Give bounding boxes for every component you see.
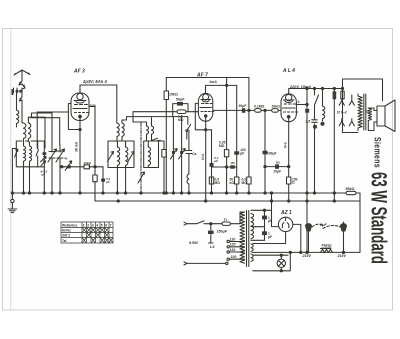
svg-text:t2 t∼2: t2 t∼2 — [337, 111, 347, 115]
IFT1 coil a — [117, 147, 119, 168]
transformer primary — [240, 212, 245, 263]
svg-text:U≈4: U≈4 — [201, 154, 205, 160]
wire antenna to coil — [17, 93, 23, 123]
antenna coil secondary — [28, 117, 30, 142]
AVC line left — [31, 112, 69, 148]
B+ top line — [166, 77, 249, 79]
svg-text:kΩ: kΩ — [230, 181, 235, 185]
svg-text:AF 7: AF 7 — [196, 73, 208, 79]
output transformer primary — [358, 96, 362, 128]
plate feed line — [80, 84, 117, 86]
pickup jack — [187, 174, 189, 193]
hf choke — [323, 89, 325, 122]
svg-text:AF 3: AF 3 — [73, 69, 85, 75]
power transformer core — [247, 211, 249, 267]
OT secondary — [368, 108, 371, 121]
IF coil 2 box — [144, 141, 159, 168]
coil L3 — [30, 146, 32, 167]
variable cap C1 — [48, 113, 57, 193]
wave switch — [152, 138, 161, 140]
coupling cap 30uF — [214, 109, 255, 111]
lamp feed wires — [253, 252, 291, 270]
svg-text:pF: pF — [42, 173, 46, 177]
heater link — [271, 193, 273, 201]
svg-text:3: 3 — [92, 223, 94, 227]
tube AF3 — [71, 93, 89, 121]
spark gap — [19, 81, 25, 97]
grid stopper row — [62, 166, 103, 168]
svg-text:132: 132 — [230, 248, 236, 252]
ground bus wire — [12, 192, 360, 194]
tube AL4 — [281, 94, 296, 122]
svg-text:15kΩ: 15kΩ — [169, 93, 178, 97]
svg-text:Ω: Ω — [292, 181, 295, 185]
svg-text:5: 5 — [101, 223, 103, 227]
fuse box filled — [333, 91, 337, 99]
svg-text:2μ3V; 5An 4: 2μ3V; 5An 4 — [82, 79, 107, 84]
svg-text:M.Fkz: M.Fkz — [62, 228, 71, 232]
mains plug marks — [184, 222, 187, 265]
coil L2 — [24, 146, 26, 167]
svg-text:63 W Standard: 63 W Standard — [367, 172, 392, 264]
svg-text:100μF: 100μF — [267, 151, 277, 155]
svg-text:215V: 215V — [337, 254, 347, 258]
cap blob right — [43, 152, 47, 155]
svg-text:Wellenber.: Wellenber. — [62, 223, 78, 227]
resistor 0.1M — [255, 109, 262, 113]
svg-text:95kΩ: 95kΩ — [346, 187, 355, 191]
speaker wiring — [358, 79, 383, 131]
antenna coil primary — [22, 123, 26, 142]
svg-text:150μF: 150μF — [217, 230, 228, 234]
OT bottom wire — [343, 89, 359, 133]
svg-text:A L 4: A L 4 — [282, 68, 295, 74]
plug pair 1 — [339, 95, 354, 105]
svg-text:4Ω: 4Ω — [366, 109, 370, 114]
mains line top — [187, 212, 245, 224]
wire top link — [28, 113, 52, 148]
OT core — [364, 94, 366, 130]
screen feed line — [206, 84, 237, 86]
osc coil top — [116, 85, 118, 123]
svg-text:6+3: 6+3 — [283, 142, 287, 148]
plug pair 2 — [339, 119, 354, 126]
svg-text:40: 40 — [64, 157, 68, 161]
decoupling cap 50uF — [173, 104, 188, 117]
fuse box open — [341, 91, 344, 99]
field coil — [321, 249, 333, 253]
transformer LV secondary — [251, 244, 253, 261]
svg-text:2t8V: 2t8V — [90, 104, 98, 108]
svg-text:μF: μF — [214, 159, 218, 163]
svg-text:MΩ: MΩ — [215, 181, 221, 185]
AVC dropper — [140, 123, 142, 193]
variable cap C2 — [56, 145, 65, 193]
node right vertical — [359, 193, 361, 252]
svg-text:pF: pF — [240, 151, 244, 155]
B+ output line — [252, 251, 360, 253]
svg-text:5.5W: 5.5W — [189, 241, 198, 245]
fuse Tr — [222, 222, 231, 225]
svg-text:20kΩ: 20kΩ — [272, 105, 281, 109]
long coupling lines — [122, 112, 198, 126]
cathode R bypass — [206, 130, 212, 193]
svg-text:6: 6 — [105, 223, 107, 227]
svg-text:2,5: 2,5 — [306, 120, 311, 124]
filter cap 1a — [264, 210, 266, 240]
cap 20uF row — [265, 166, 289, 168]
plate feed resistor — [93, 175, 97, 182]
IFT1 trimmers — [108, 152, 135, 162]
transformer HV secondary — [251, 214, 254, 239]
svg-text:215V: 215V — [302, 254, 312, 258]
IFT1 coil b — [126, 147, 128, 168]
B+ drop — [306, 89, 308, 253]
svg-text:Ca: Ca — [192, 152, 196, 156]
AF7 grid bracket — [195, 103, 205, 129]
coil L1a — [17, 110, 19, 127]
speaker — [377, 106, 385, 126]
tone line down — [333, 89, 335, 202]
svg-text:Siemens: Siemens — [373, 137, 383, 168]
AZ1 heater wire — [253, 232, 286, 244]
svg-text:μF: μF — [106, 180, 110, 184]
svg-text:2: 2 — [298, 100, 300, 104]
antenna — [14, 70, 30, 81]
grid leak AL4 — [264, 110, 266, 193]
40pF trimmer cap — [67, 165, 70, 168]
terminal blobs node a — [14, 88, 18, 93]
line cap — [210, 224, 212, 243]
svg-text:1mA: 1mA — [209, 80, 217, 84]
AL4 cathode — [288, 118, 290, 201]
svg-text:7: 7 — [110, 223, 112, 227]
IFT2 coil — [148, 147, 150, 168]
svg-text:8μF: 8μF — [320, 223, 327, 227]
tone cap blob — [305, 109, 309, 113]
svg-text:μF: μF — [268, 235, 272, 239]
svg-text:20μF: 20μF — [274, 170, 282, 174]
filter cap 8uF b — [343, 222, 345, 252]
B+ vertical — [165, 78, 167, 194]
plate line — [296, 104, 307, 106]
svg-text:MΩ: MΩ — [219, 144, 225, 148]
svg-text:125: 125 — [230, 243, 236, 247]
cap Ca — [186, 130, 192, 174]
valve table — [61, 222, 113, 243]
svg-text:MΩ: MΩ — [178, 118, 184, 122]
B+ dropper right — [248, 78, 250, 194]
tuned circuit 1 box — [16, 141, 44, 167]
svg-text:μF: μF — [268, 219, 272, 223]
svg-text:AZ 1: AZ 1 — [280, 210, 292, 216]
IF coil 2 feed coils — [147, 126, 149, 141]
pilot lamp — [277, 259, 285, 267]
detector cap branch — [102, 167, 104, 193]
svg-text:Tr: Tr — [224, 218, 228, 222]
svg-text:50μF: 50μF — [176, 98, 185, 102]
svg-text:Tal: Tal — [62, 239, 66, 243]
svg-text:0,1MΩ: 0,1MΩ — [254, 105, 265, 109]
svg-text:B6: B6 — [231, 161, 235, 165]
grid switch — [186, 130, 188, 132]
AZ1 output — [293, 224, 301, 252]
trimmer row mid — [170, 117, 177, 193]
resistor 20k — [261, 109, 272, 111]
wire to bus — [24, 167, 30, 193]
screen line — [289, 79, 383, 89]
trimmer arrow — [15, 149, 18, 157]
IF transformer 1 box — [108, 141, 134, 168]
tube AF7 — [198, 93, 212, 121]
svg-text:Fldsp: Fldsp — [322, 244, 333, 248]
svg-text:220: 220 — [231, 255, 237, 259]
voltage taps — [230, 242, 245, 260]
ground — [8, 193, 17, 213]
screen dropper — [226, 78, 228, 194]
svg-text:2: 2 — [87, 223, 89, 227]
wires to bus — [117, 168, 125, 194]
8uF brace — [312, 224, 340, 228]
svg-text:38 mA: 38 mA — [75, 141, 79, 152]
left edge wire — [12, 149, 16, 194]
svg-text:Gitt 2: Gitt 2 — [62, 233, 70, 237]
HV wires to rectifier — [251, 201, 279, 240]
svg-text:10kΩ: 10kΩ — [84, 161, 92, 165]
rectifier AZ1 — [278, 217, 292, 231]
svg-text:220V, 15mA: 220V, 15mA — [289, 85, 311, 89]
svg-text:B5: B5 — [276, 161, 280, 165]
filter cap 8uF a — [308, 231, 310, 252]
AVC node row — [212, 166, 237, 168]
svg-text:30μF: 30μF — [239, 104, 247, 108]
band switch — [36, 141, 39, 167]
svg-text:MΩ: MΩ — [242, 181, 248, 185]
tone switch — [312, 89, 319, 194]
AF7 cathode — [205, 117, 207, 201]
svg-text:110: 110 — [230, 237, 236, 241]
svg-text:4: 4 — [96, 223, 98, 227]
resistor 3k2 — [159, 141, 165, 193]
cathode wires — [68, 104, 95, 194]
screen bypass — [236, 85, 238, 193]
resistor 95k — [346, 191, 356, 194]
svg-text:1: 1 — [83, 223, 85, 227]
heater bus wire — [95, 193, 360, 201]
mains line bottom — [187, 262, 226, 264]
